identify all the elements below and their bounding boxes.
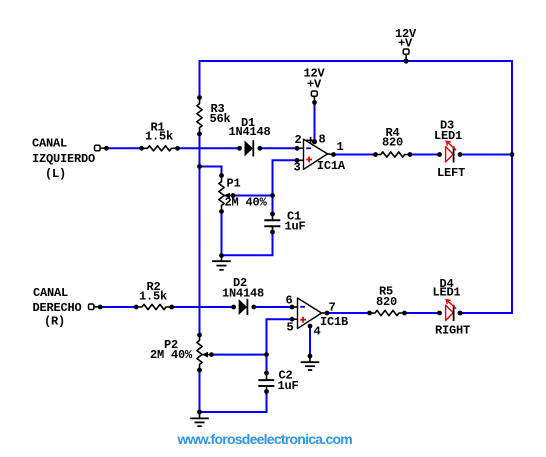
wire pin 5 to P2 wiper node [267, 319, 293, 373]
junction +V top rail [403, 58, 408, 63]
junction C1 bottom [270, 230, 275, 235]
junction R1 left [139, 146, 144, 151]
junction C2 bottom [264, 389, 269, 394]
svg-text:LED1: LED1 [434, 129, 462, 143]
junction D3 cathode [458, 152, 463, 157]
power terminal 12V +V (top) [403, 49, 409, 60]
potentiometer P1 body [219, 176, 224, 212]
ground at IC1B pin 4 [301, 356, 320, 370]
svg-text:820: 820 [382, 136, 403, 150]
svg-text:1: 1 [337, 140, 344, 154]
junction wiper node B [264, 352, 269, 357]
junction D4 cathode [458, 311, 463, 316]
svg-text:DERECHO: DERECHO [33, 301, 82, 315]
junction R3 bottom [197, 132, 202, 137]
svg-text:(R): (R) [44, 315, 65, 329]
junction D1 cathode [257, 146, 262, 151]
junction R1 right [175, 146, 180, 151]
svg-text:+V: +V [398, 37, 413, 51]
svg-text:IC1B: IC1B [320, 315, 348, 329]
junction pin 2 [295, 146, 300, 151]
svg-text:1uF: 1uF [285, 220, 306, 234]
junction D2 anode [231, 305, 236, 310]
wire C2 bottom to ground node [200, 392, 267, 413]
svg-text:1.5k: 1.5k [145, 130, 173, 144]
potentiometer P2 body [197, 335, 202, 370]
wire P1 wiper to node [233, 195, 273, 197]
junction pin 6 [290, 305, 295, 310]
svg-text:6: 6 [286, 294, 293, 308]
resistor R4 [376, 152, 411, 157]
input terminal R [89, 304, 99, 310]
svg-text:56k: 56k [210, 112, 231, 126]
svg-text:LEFT: LEFT [437, 166, 465, 180]
svg-text:7: 7 [329, 301, 336, 315]
wire R2 to D2 [172, 306, 234, 308]
capacitor C2 [258, 373, 274, 392]
junction pin 1 output [331, 152, 336, 157]
svg-text:5: 5 [287, 321, 294, 335]
diode D1 1N4148 [245, 140, 254, 156]
junction D3 anode [437, 152, 442, 157]
svg-text:1.5k: 1.5k [139, 290, 167, 304]
junction pin 5 [290, 317, 295, 322]
svg-text:IC1A: IC1A [317, 159, 346, 173]
op-amp U1B IC1B [292, 298, 327, 329]
junction D2 cathode [251, 305, 256, 310]
junction L input node [104, 146, 109, 151]
junction D1 anode [237, 146, 242, 151]
junction pin 7 output [325, 311, 330, 316]
junction pin 3 [295, 158, 300, 163]
potentiometer P1 wiper arrow [224, 193, 233, 199]
wire right rail vertical [511, 61, 513, 313]
junction P2 bottom [197, 368, 202, 373]
svg-text:IZQUIERDO: IZQUIERDO [32, 152, 95, 166]
wire D3 to right rail [460, 154, 512, 156]
capacitor C1 [264, 214, 280, 232]
wire left rail R3-to-P2 segment [199, 134, 201, 335]
LED D4 [446, 300, 457, 321]
wire C1 bottom to ground node [222, 232, 273, 255]
svg-text:820: 820 [376, 295, 397, 309]
svg-text:1N4148: 1N4148 [222, 287, 264, 301]
wire rail to P1 top [200, 167, 222, 176]
junction R4 right [408, 152, 413, 157]
svg-text:1N4148: 1N4148 [229, 125, 271, 139]
svg-text:(L): (L) [45, 167, 66, 181]
junction R4 left [373, 152, 378, 157]
wire D1 to pin 2 [260, 147, 297, 149]
wire left rail upper segment [199, 61, 201, 98]
junction R5 left [367, 311, 372, 316]
wire left rail P2-to-ground segment [199, 370, 201, 412]
svg-text:2M 40%: 2M 40% [150, 348, 193, 362]
junction D4 anode [437, 311, 442, 316]
junction pin 4 ground dot [308, 354, 313, 359]
junction C2 top [264, 371, 269, 376]
junction pin 4 [308, 324, 313, 329]
wire left channel input to R1 [105, 147, 142, 149]
svg-text:CANAL: CANAL [33, 286, 68, 300]
junction R5 right [402, 311, 407, 316]
svg-text:+V: +V [307, 78, 322, 92]
wire R4 to D3 [410, 154, 440, 156]
svg-text:LED1: LED1 [433, 286, 461, 300]
svg-text:3: 3 [294, 161, 301, 175]
svg-text:8: 8 [319, 133, 326, 147]
junction R2 right [169, 305, 174, 310]
svg-text:P1: P1 [227, 177, 241, 191]
wire D2 to pin 6 [254, 306, 292, 308]
junction wiper node A [270, 193, 275, 198]
wire right channel input to R2 [99, 306, 136, 308]
junction P1 bottom [219, 209, 224, 214]
wire P2 wiper to node [212, 354, 267, 356]
junction P1 top [219, 173, 224, 178]
svg-text:CANAL: CANAL [32, 137, 67, 151]
wire P1 bottom to ground node [221, 212, 223, 256]
wire R5 to D4 [405, 312, 440, 314]
ground below P1/C1 [212, 256, 231, 270]
wire pin 3 to P1 wiper node [273, 160, 298, 214]
junction LEFT to right rail [510, 152, 515, 157]
junction P1 wiper [231, 193, 236, 198]
input terminal L [95, 145, 105, 151]
wire R1 to D1 [178, 147, 240, 149]
junction IC1A supply terminal [312, 100, 317, 105]
junction ground node left [219, 253, 224, 258]
junction R3 top [197, 95, 202, 100]
svg-text:www.forosdeelectronica.com: www.forosdeelectronica.com [177, 431, 353, 447]
op-amp U1A IC1A [297, 137, 334, 170]
resistor R5 [370, 310, 405, 315]
junction R2 left [134, 305, 139, 310]
junction R input node [98, 305, 103, 310]
diode D2 1N4148 [239, 299, 248, 315]
svg-text:2M 40%: 2M 40% [225, 196, 268, 210]
power terminal 12V +V (IC1A pin 8) [311, 91, 317, 101]
junction pin 8 [312, 139, 317, 144]
svg-text:2: 2 [295, 133, 302, 147]
wire IC1A output to R4 [334, 154, 376, 156]
resistor R2 [136, 304, 172, 309]
junction ground node bottom [197, 410, 202, 415]
resistor R3 [197, 98, 202, 135]
wire IC1B output to R5 [327, 312, 370, 314]
wire D4 to right rail corner [460, 312, 512, 314]
svg-text:RIGHT: RIGHT [435, 324, 470, 338]
junction P2 wiper [209, 352, 214, 357]
junction rail to P1 [197, 164, 202, 169]
resistor R1 [142, 146, 178, 151]
junction C1 top [270, 212, 275, 217]
junction P2 top [197, 333, 202, 338]
wire top +V rail horizontal [200, 60, 513, 62]
svg-text:1uF: 1uF [278, 379, 299, 393]
wire IC1A V+ supply [314, 102, 316, 141]
ground below P2 [190, 412, 209, 426]
LED D3 [446, 141, 457, 162]
potentiometer P2 wiper arrow [202, 352, 212, 358]
wire IC1B pin 4 to ground [309, 326, 311, 356]
